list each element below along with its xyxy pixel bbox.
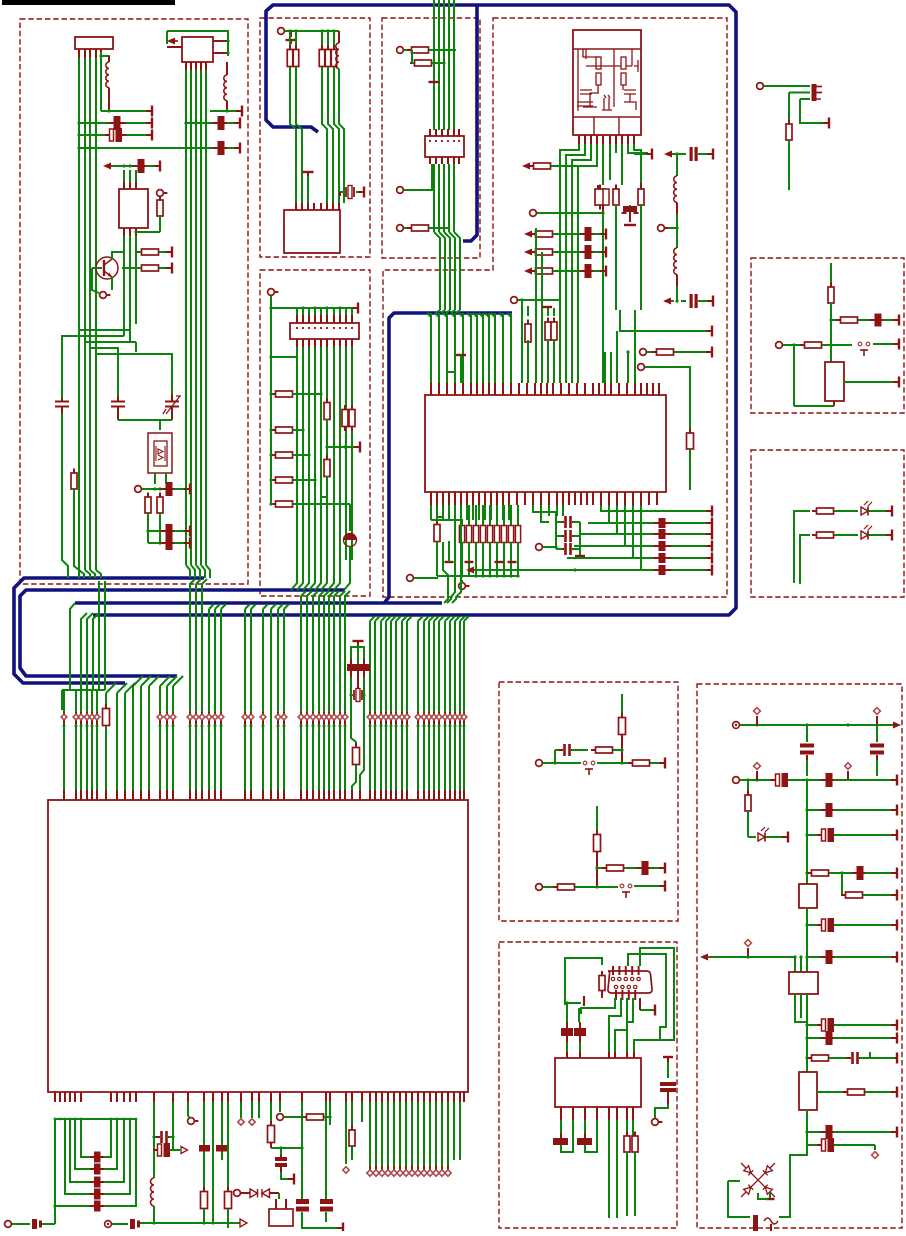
connector J1 [425,136,464,157]
wire port row [285,30,339,32]
wire port down [270,296,272,505]
resistor R6 [159,493,161,498]
diamond port [395,712,397,726]
ground bar [769,1193,771,1199]
port P24 [733,722,740,729]
wire 259 stub [258,1102,260,1118]
resistor R8 [295,31,297,50]
wire left branch down [793,345,795,406]
resistor R50 [596,830,598,835]
resistor R2 [137,251,142,253]
supply bar [600,233,606,235]
port P3 [141,488,145,490]
LED D5 [758,833,765,841]
wire bus entry to IC pin [381,616,386,621]
resistor R5 [147,493,149,498]
wire U6 bottom [833,401,835,406]
wire [843,779,895,781]
resistor R10b [333,31,335,50]
wire LED branch [748,836,756,838]
wire arrow row [710,956,795,958]
wire row 10 [805,1130,808,1133]
wire bus entry to IC pin [386,616,391,621]
supply bar [659,867,665,869]
inductor L2 [226,62,228,75]
diamond port [756,771,758,780]
diamond port [380,712,382,726]
capacitor C56 [847,1057,852,1059]
wire tuner2 left stub [167,46,182,48]
wire row 6 [805,923,808,926]
wire under U9 [795,1012,807,1022]
section frame: box J [697,684,902,1228]
switch S1 [858,342,862,346]
wire bus entry to IC pin [313,591,318,596]
section frame: box C [382,18,480,258]
port P11 [644,366,648,368]
wire top vertical [621,694,623,718]
diamond port [339,712,341,726]
resistor R47 [621,713,623,718]
ground bar [575,555,585,557]
wire bus entry to IC pin [445,616,450,621]
wire bus entry to IC pin [196,579,201,584]
wire 362 stub [361,1102,363,1122]
supply bar [707,153,713,155]
capacitor C53 [821,956,826,958]
wire branch 2 [789,92,810,94]
capacitor C45 pol v [806,725,808,742]
switch S3 [620,884,624,888]
capacitor C49 [821,809,826,811]
wire bus entry to IC pin [402,616,407,621]
ground bars under bank [445,561,454,563]
wire cap stubs to IC [566,1042,568,1058]
wire row 5 [805,871,808,874]
wire row 9 [805,1056,808,1059]
wire xtal left branch [351,647,358,659]
wire left wrap [271,356,297,358]
section frame: tuner block (box A) [20,19,248,584]
tuner TU2 [182,37,213,62]
wire x326 long [325,1102,327,1199]
supply bar [184,542,190,544]
diamond port [318,712,320,726]
resistor R60 [843,1091,848,1093]
wire top row [271,307,353,309]
module M1 pins [578,135,580,144]
capacitor C8 trimmer [171,394,173,401]
supply bar [893,343,899,345]
wire bus entry to IC pin [190,579,195,584]
wire module fanout [560,144,579,383]
resistor R3 [137,267,142,269]
crystal X3 [353,690,355,700]
wire left pin group down [430,505,432,520]
wire y1223 run [140,1222,240,1224]
wire bus entry to IC pin [86,690,88,790]
wire [146,165,158,167]
wire bus entry to IC pin [149,676,159,686]
supply bar [891,924,897,926]
wire right pins from top [634,310,636,383]
supply bar [236,110,242,112]
wire P7 row [404,227,410,229]
wire bus entry to IC pin [307,591,312,596]
diamond port [166,712,168,726]
diamond port [438,712,440,726]
single diamond [345,1118,347,1164]
capacitor C48 [821,779,826,781]
capacitor C33 big [216,1145,227,1152]
resistor R18 [640,183,642,190]
wire bus entry to IC pin [263,604,268,609]
wire P11 route [645,367,690,434]
wire loop to bar [800,99,825,123]
capacitor C23 [81,1119,90,1157]
wire tuner1 pins down [78,49,80,58]
arrow left row [663,298,671,305]
wire bus entry to IC pin [75,690,77,790]
wire IF IC top pins [123,170,125,182]
wire P14 to caps [543,546,556,548]
resistor R29 [271,429,276,431]
resistor R23 [547,308,549,316]
IC U4 bottom pins [430,492,432,505]
wire bus entry to IC pin [375,616,380,621]
wire bus entry to IC pin [215,604,220,609]
wire bus entry to IC pin [396,616,401,621]
diamond port [283,712,285,726]
diamond port [428,712,430,726]
supply bar [782,836,788,838]
diamond port [214,712,216,726]
supply bar [583,996,585,1006]
supply bar [891,1131,897,1133]
bus: horizontal bus segment y603 [75,601,442,605]
port P9 [536,212,540,214]
wire cap row y543 [148,542,163,544]
capacitor C58 [817,1144,822,1146]
diamond port 2 [251,1102,253,1118]
arrow left [103,163,111,170]
wire IF IC bottom pins [123,228,125,236]
wire bus entry to IC pin [334,591,339,596]
wire entries onto bus2 [436,310,440,313]
supply bar [893,381,899,383]
wire bank exit bottom [443,542,448,597]
wire bus entry to IC pin [63,690,65,790]
wire LED row 2 [800,535,810,584]
DB9 connector J3 [608,971,652,993]
wire x173 chain [172,1102,174,1150]
resistor R33 vertical [326,394,328,403]
wire tuner1 pin5 to coil [101,52,109,62]
ground bar [542,306,552,308]
supply bar [891,872,897,874]
modulator module M1 outline [573,30,641,135]
capacitor C28 pol [32,1219,37,1229]
supply bar [659,762,665,764]
wire join row y1119 left [55,1118,136,1120]
wire L4 port [665,227,677,229]
wire row y345 [783,344,800,346]
capacitor C35 pol v [296,1199,309,1204]
capacitor C2 [105,134,110,136]
port P10 [517,299,521,301]
diamond port [159,712,161,726]
wire left port row [11,1223,15,1225]
wire tuner2 right stubs [213,40,228,42]
diamond port [390,712,392,726]
port P17 [187,1102,189,1116]
fuse F1 [753,1215,758,1231]
wire long verticals to box bottom [608,1120,610,1218]
wire bus entry to IC pin [141,676,151,686]
wire bus entry to IC pin [370,616,375,621]
wire rows join verticals [535,234,537,383]
diamond port [463,712,465,726]
diamond port [86,712,88,726]
wire port row vert [602,213,604,383]
section frame: box D (notched) [383,18,727,597]
capacitor C17 [580,270,585,272]
resistor R24 [553,308,555,316]
resistor R46 [812,534,817,536]
wire row 4 [805,833,808,836]
capacitor C11 [161,542,166,544]
diamond port [433,712,435,726]
resistor pair R15 R16 [597,185,599,190]
IC U5 bottom pin stubs [54,1092,56,1102]
port P12b [646,351,650,353]
supply bar [706,351,712,353]
capacitor C44 pol [660,1082,676,1086]
supply bar [891,1037,897,1039]
wire x271 chain [270,1102,272,1126]
capacitor C18 [560,521,565,523]
wire to tbar [281,1172,292,1179]
port P26 [763,85,767,87]
port P7 [403,227,407,229]
port P4 [284,30,288,32]
bus: main loop around top sections (net bus 1) [93,5,736,615]
wire bus entry to IC pin [345,591,350,596]
resistor R43 [836,319,841,321]
battery B1 [269,1209,293,1226]
capacitor C51 [852,872,857,874]
IC U5 top pin stubs [63,790,65,800]
port P13 [465,585,469,587]
diamond port [80,712,82,726]
wire bus entry to IC pin [278,604,283,609]
SAW filter U2 [119,189,148,228]
resistor R45 [812,510,817,512]
resistor bank RN1 [459,526,464,543]
wire to IC top [527,340,529,383]
diamond port [449,712,451,726]
wire caps above IC [567,1002,581,1004]
wire R12 left [411,50,413,63]
wire bus entry to IC pin [455,616,460,621]
diamond port [423,712,425,726]
capacitor C21 tantal [349,504,351,531]
wire gnd pin jog [447,372,455,383]
resistor R44 [800,344,805,346]
wire row 7 [805,1023,808,1026]
port P5 [403,49,407,51]
bus: horizontal bus segment y590 under box E [20,590,345,676]
port P19 [279,1102,281,1112]
supply bar [663,1056,673,1058]
supply bar [891,1024,897,1026]
wire corner [54,1206,56,1224]
wire bridge frame right [779,1148,807,1217]
wire base left [92,268,99,293]
module M1 internals [577,49,638,111]
title bar [2,0,175,5]
port P16 [105,1221,112,1228]
resistor R19 [531,233,536,235]
inductor L1 [106,62,109,88]
wire right cap rows [588,522,710,524]
diamond port [444,712,446,726]
diamond port [374,712,376,726]
ground stub [290,31,292,37]
resistor R35 vertical [351,405,353,410]
wire right bottom pin group to diamonds [369,1102,371,1166]
wire P16 row [112,1223,128,1225]
supply bar [891,956,897,958]
wire bus entry to IC pin [424,616,429,621]
bus: horizontal bus inside box A bottom going to lower left loop [14,578,204,683]
wire bus entry to IC pin [450,616,455,621]
resistor R34 vertical [344,405,346,410]
diamond port [847,771,849,780]
capacitor C43 [584,1120,586,1133]
resistor R37 in wire row [105,704,107,709]
diamond port [747,948,749,957]
supply bar [886,534,892,536]
wire bus entry to IC pin [407,616,412,621]
bridge rectifier D6-D9 [741,1163,775,1197]
resistor R59 [807,1057,812,1059]
capacitor C57 [821,1131,826,1133]
wire row 11 [807,1144,820,1146]
wire bus entry to IC pin [117,683,127,693]
wire bus entry to IC pin [301,591,306,596]
capacitor C7 vertical [117,396,119,401]
wire IF arrow row [114,165,134,167]
wire tuner2 loop top [167,31,228,56]
wire bus entry to IC pin [324,591,329,596]
port P13b [413,577,417,579]
capacitor C50 [817,834,822,836]
ground bar top [353,640,364,642]
wire to caps [806,925,808,957]
resistor R7 [289,31,291,50]
wire branch 3 [800,98,810,100]
supply bar [354,446,360,448]
resistor R43 [351,1126,353,1131]
diamond port [63,712,65,726]
supply bar [337,1227,343,1229]
wire bus entry to IC pin [167,676,177,686]
diode D1 [250,1189,258,1198]
diamond port [208,712,210,726]
switch S2 [583,761,587,765]
wire y504 row [292,503,350,505]
supply bar [707,300,713,302]
wire bus entry to IC pin [460,616,465,621]
port P25 [739,779,743,781]
diamond port [172,712,174,726]
wire bus entry to IC pin [439,616,444,621]
wire P10 row [518,299,560,301]
IC U3 [284,210,340,253]
arrow right [877,724,895,726]
arrow left [700,954,708,961]
wire bus entry to IC pin [106,683,116,693]
resistor R41 [270,1121,272,1126]
supply bar [891,834,897,836]
supply bar [893,319,899,321]
capacitor C42 [560,1120,562,1133]
wire bridge frame left [728,1181,750,1217]
wire exits under box D onto bus end [442,541,444,543]
supply bar [891,894,897,896]
wire 346 352 stubs [345,1102,347,1118]
resistor R28 [271,393,276,395]
resistor R56 [747,780,749,795]
wire row 8 [805,1036,808,1039]
resistor R38 [355,743,357,748]
resistor R57 [807,872,812,874]
wire Q1 emitter [111,277,113,290]
capacitor C4 [213,122,218,124]
ground bar [649,1009,655,1011]
diamond port [75,712,77,726]
capacitor C1 [109,122,114,124]
capacitor C32 big [199,1145,210,1152]
wire U10 down [806,1110,808,1125]
supply bar [146,122,152,124]
supply bar [234,122,240,124]
wire xtal chains down to pins [351,712,356,748]
diamond port [220,712,222,726]
wire bus entry to IC pin [434,616,439,621]
wire jogs across bus end [290,120,296,203]
diamond port [454,712,456,726]
regulator U6 [825,362,844,401]
diamond port [262,712,264,726]
wire x302 long [301,1102,303,1199]
wire comb join left group [62,689,105,691]
wire right link [281,1147,302,1149]
wire left entries to bus2 [521,300,523,383]
resistor R14 [529,165,534,167]
wire y447 row [327,446,358,448]
wire Q1 base [92,267,102,269]
wire harness left [565,958,602,1005]
wire main vertical [806,780,808,873]
capacitor C9 [161,488,166,490]
arrow exit left [466,567,474,574]
wire bus entry to IC pin [245,604,250,609]
supply bar [184,488,190,490]
single resistor R27 [436,520,438,526]
wire bus entry to IC pin [221,604,226,609]
